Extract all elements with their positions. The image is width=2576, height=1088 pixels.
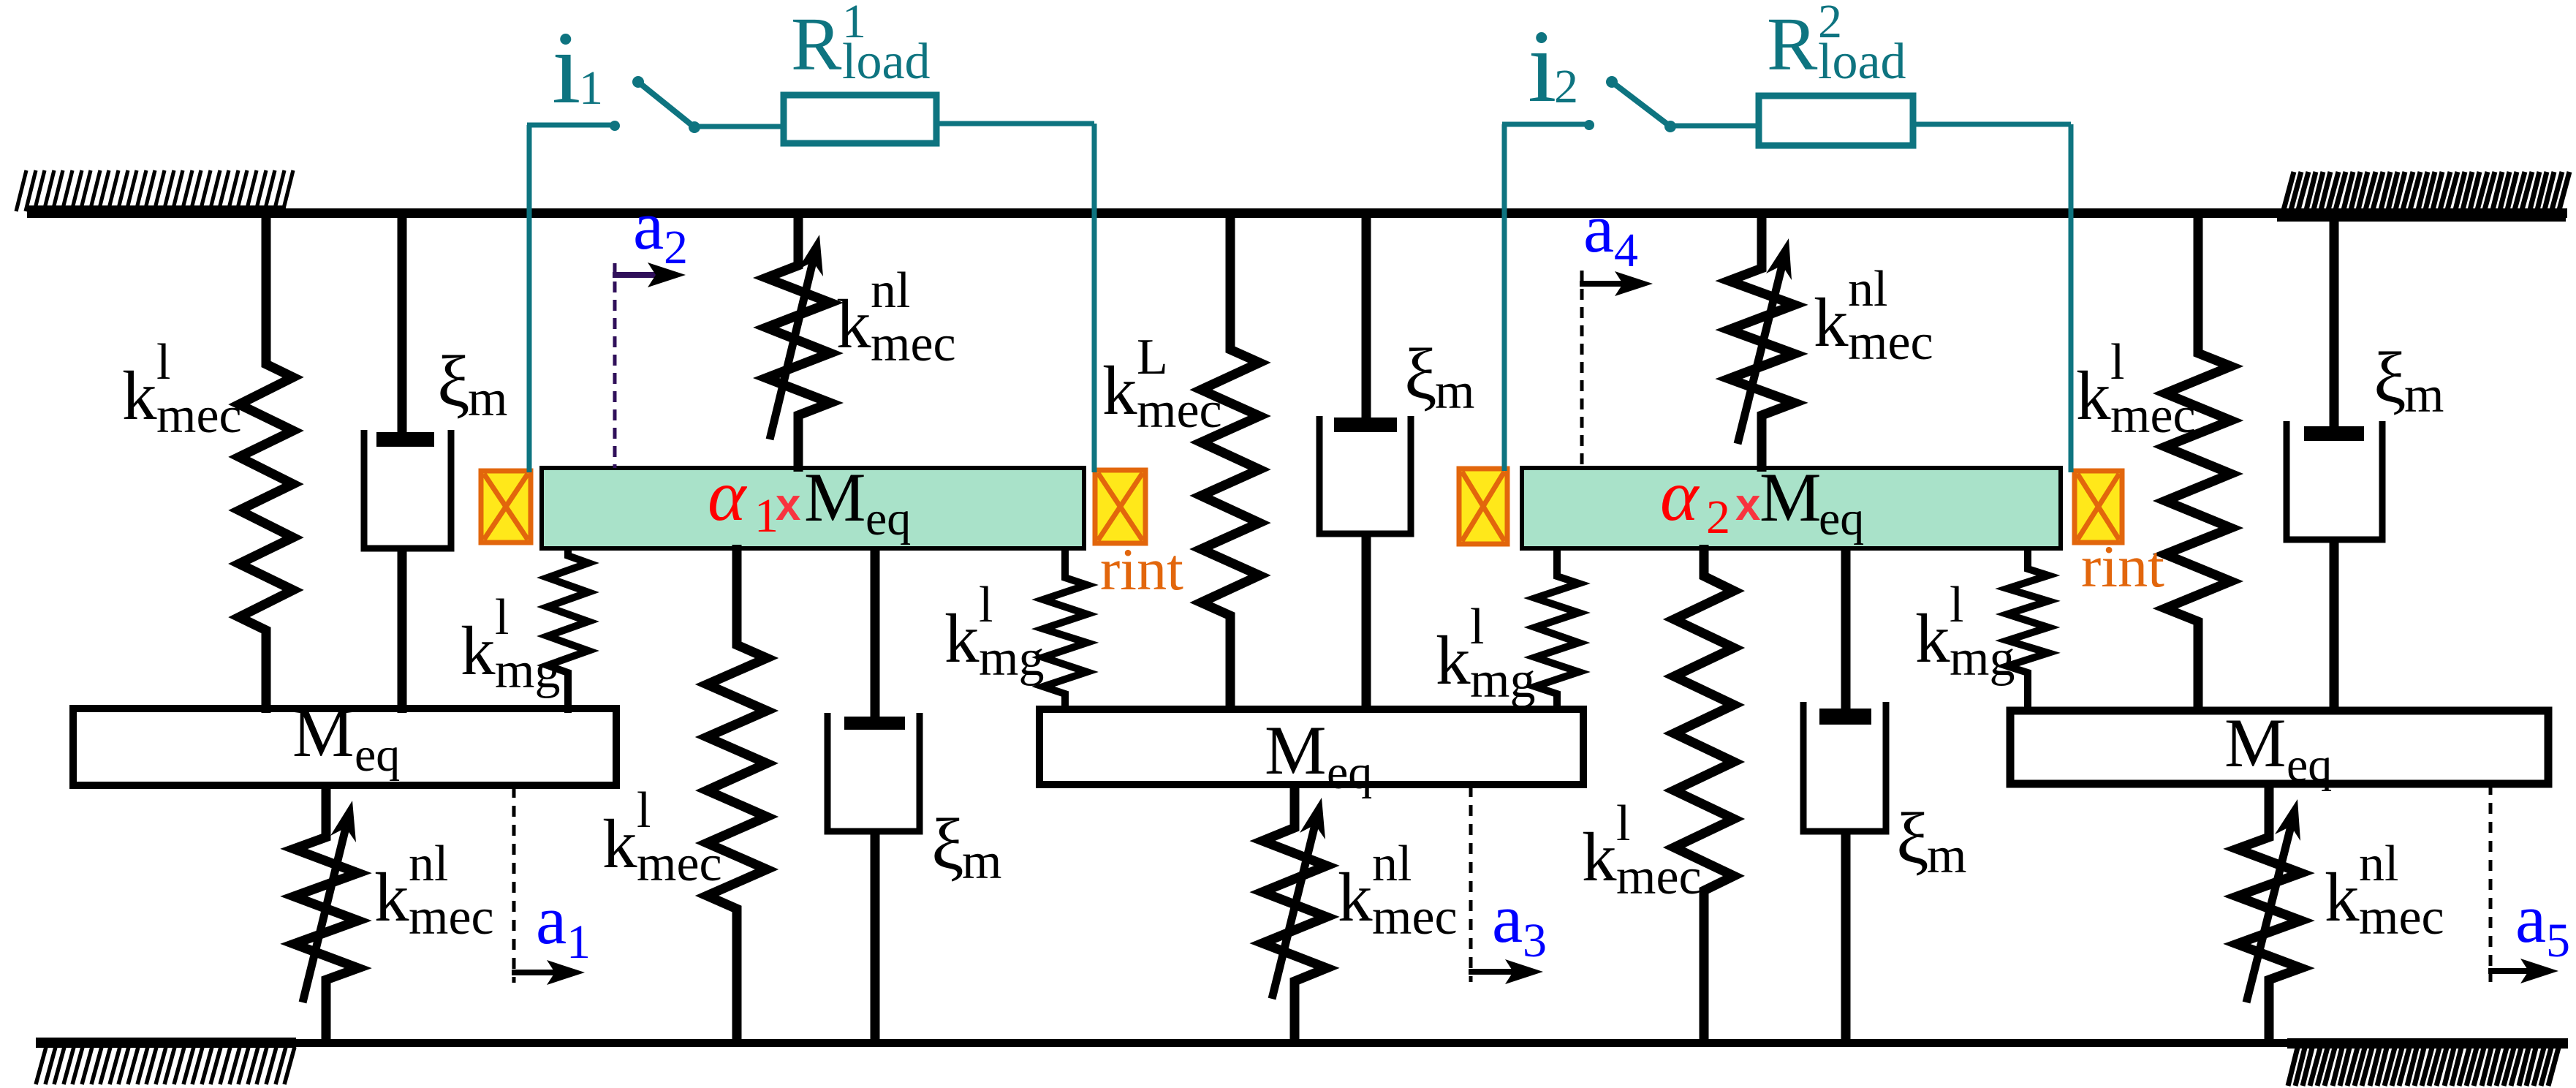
svg-text:M: M xyxy=(1265,711,1326,789)
svg-text:mec: mec xyxy=(637,836,722,892)
nonlinear spring k_mec^nl below left Meq xyxy=(294,782,358,1043)
svg-text:M: M xyxy=(2224,704,2286,782)
svg-text:rint: rint xyxy=(1100,536,1183,602)
nonlinear spring k_mec^nl below right Meq xyxy=(2237,782,2301,1043)
svg-text:2: 2 xyxy=(1554,60,1578,113)
svg-text:2: 2 xyxy=(664,221,688,274)
spring k_mec^l below green mass 1 xyxy=(707,545,767,1043)
svg-text:nl: nl xyxy=(1372,836,1412,892)
top-left wall fixed support hatching xyxy=(16,170,293,211)
svg-text:l: l xyxy=(2110,334,2124,390)
transducer coil right of green mass 2 (rint) xyxy=(2075,471,2122,543)
svg-text:R: R xyxy=(1767,2,1818,86)
switch 1 pivot dot xyxy=(689,121,700,133)
arrow of nonlinear spring above green mass 1 xyxy=(770,262,813,439)
damper xi_m 2 (wall to middle Meq) xyxy=(1362,214,1371,429)
svg-text:eq: eq xyxy=(1327,746,1372,799)
svg-text:l: l xyxy=(1616,796,1630,852)
svg-text:load: load xyxy=(842,34,931,90)
svg-text:1: 1 xyxy=(579,61,603,115)
svg-text:x: x xyxy=(1735,480,1761,530)
svg-text:mec: mec xyxy=(1848,314,1933,371)
svg-text:k: k xyxy=(2325,858,2360,936)
svg-text:α: α xyxy=(708,455,748,536)
arrow of nonlinear spring below right Meq xyxy=(2246,826,2291,1002)
wire to switch contact 1 xyxy=(527,123,615,128)
svg-text:eq: eq xyxy=(1819,492,1864,545)
svg-text:mg: mg xyxy=(1950,630,2015,687)
svg-text:load: load xyxy=(1818,34,1906,90)
svg-text:i: i xyxy=(552,10,580,125)
svg-text:a: a xyxy=(1492,880,1523,957)
svg-text:k: k xyxy=(374,858,409,936)
wire resistor 1 to corner xyxy=(936,121,1094,126)
svg-text:α: α xyxy=(1660,455,1700,536)
svg-text:L: L xyxy=(1137,329,1168,385)
svg-text:mec: mec xyxy=(409,889,494,945)
svg-text:mec: mec xyxy=(1372,889,1458,945)
svg-text:m: m xyxy=(1435,363,1474,420)
svg-text:5: 5 xyxy=(2546,914,2570,967)
spring k_mec^l far-left (wall to left Meq) xyxy=(239,214,293,713)
svg-text:k: k xyxy=(1582,818,1617,896)
svg-text:mec: mec xyxy=(2359,889,2444,945)
transducer coil left of green mass 1 xyxy=(481,471,531,543)
svg-text:mg: mg xyxy=(979,630,1044,687)
wire resistor 2 to corner xyxy=(1913,122,2071,127)
svg-text:l: l xyxy=(156,334,170,390)
svg-text:2: 2 xyxy=(1706,491,1730,544)
svg-text:a: a xyxy=(536,881,567,959)
switch 2 contact dot xyxy=(1584,120,1594,130)
mass M_eq box left xyxy=(73,709,616,785)
svg-text:ξ: ξ xyxy=(437,341,470,422)
svg-text:3: 3 xyxy=(1523,914,1547,967)
svg-text:eq: eq xyxy=(355,728,400,782)
wire down to coil 1R xyxy=(1092,124,1097,472)
dashed axis a1 xyxy=(512,787,516,983)
arrow a2 xyxy=(613,272,656,278)
transducer coil right of green mass 1 (rint) xyxy=(1095,470,1145,543)
svg-text:k: k xyxy=(461,612,496,690)
mass M_eq box right xyxy=(2010,711,2548,784)
svg-text:k: k xyxy=(1915,600,1950,677)
svg-text:nl: nl xyxy=(1848,261,1887,317)
svg-text:1: 1 xyxy=(567,915,591,969)
svg-text:l: l xyxy=(637,782,651,839)
svg-text:nl: nl xyxy=(871,262,910,319)
dashed axis a4 xyxy=(1580,271,1584,468)
svg-text:k: k xyxy=(1338,858,1373,936)
green proof mass alpha2*Meq xyxy=(1522,468,2061,548)
arrow of nonlinear spring below middle Meq xyxy=(1272,825,1315,999)
bottom-right wall fixed support hatching xyxy=(2288,1048,2558,1086)
dashed axis a3 xyxy=(1469,786,1473,982)
svg-text:mg: mg xyxy=(1470,652,1535,709)
arrow a3 xyxy=(1469,969,1513,975)
wire switch 2 to resistor xyxy=(1670,124,1759,129)
svg-text:mec: mec xyxy=(1137,382,1222,439)
switch 1 blade end dot xyxy=(632,76,644,88)
wire to switch contact 2 xyxy=(1502,122,1589,127)
wire switch 1 to resistor xyxy=(694,124,784,129)
svg-text:i: i xyxy=(1528,8,1556,124)
svg-text:l: l xyxy=(1470,599,1484,655)
svg-text:l: l xyxy=(979,577,993,633)
svg-text:m: m xyxy=(1927,828,1966,884)
svg-text:k: k xyxy=(1102,352,1137,429)
svg-text:ξ: ξ xyxy=(931,804,964,885)
svg-text:k: k xyxy=(1436,622,1471,699)
svg-text:k: k xyxy=(836,285,871,363)
switch 1 contact dot xyxy=(610,121,620,131)
svg-text:ξ: ξ xyxy=(2374,337,2406,418)
svg-text:mec: mec xyxy=(2110,388,2196,444)
arrow a4 xyxy=(1580,281,1623,287)
transducer coil left of green mass 2 xyxy=(1459,469,1507,544)
svg-text:rint: rint xyxy=(2081,533,2164,600)
svg-text:k: k xyxy=(122,357,157,434)
svg-text:M: M xyxy=(292,694,354,771)
damper xi_m 5 (wall to right Meq) xyxy=(2330,214,2339,438)
svg-text:nl: nl xyxy=(2359,836,2398,892)
switch 2 blade (open) xyxy=(1612,82,1670,126)
svg-text:k: k xyxy=(2076,357,2111,434)
green proof mass alpha1*Meq xyxy=(542,468,1084,548)
svg-text:mec: mec xyxy=(1616,849,1702,905)
damper xi_m 3 (below green mass 1) xyxy=(871,547,880,727)
svg-text:mec: mec xyxy=(156,388,242,444)
damper xi_m 1 (wall to left Meq) xyxy=(398,214,407,444)
spring k_mg^l 2 (green mass 1 to middle Meq) xyxy=(1043,547,1087,713)
top wall line xyxy=(27,208,2567,218)
svg-text:eq: eq xyxy=(865,492,911,545)
nonlinear spring k_mec^nl above green mass 2 xyxy=(1729,214,1795,472)
resistor R_load^1 xyxy=(784,95,936,143)
switch 2 pivot dot xyxy=(1664,121,1676,132)
arrow a5 xyxy=(2488,968,2528,974)
svg-text:k: k xyxy=(1814,284,1849,361)
svg-text:m: m xyxy=(962,834,1001,890)
svg-text:ξ: ξ xyxy=(1404,333,1437,415)
nonlinear spring k_mec^nl above green mass 1 xyxy=(766,214,830,472)
damper xi_m 4 (below green mass 2) xyxy=(1841,547,1851,722)
svg-text:m: m xyxy=(468,371,507,427)
svg-text:a: a xyxy=(633,186,664,264)
svg-text:ξ: ξ xyxy=(1896,798,1929,879)
resistor R_load^2 xyxy=(1759,96,1913,146)
dashed axis a2 xyxy=(613,263,617,468)
svg-text:nl: nl xyxy=(409,836,448,892)
svg-text:a: a xyxy=(2515,880,2546,957)
mass M_eq box middle xyxy=(1039,709,1583,785)
dashed axis a5 xyxy=(2489,784,2493,982)
svg-text:mg: mg xyxy=(495,643,560,699)
spring k_mg^l 1 (green mass 1 to left Meq) xyxy=(548,547,588,713)
spring k_mec^l below green mass 2 xyxy=(1674,545,1734,1043)
svg-text:k: k xyxy=(944,600,980,677)
arrow a1 xyxy=(512,970,555,975)
switch 2 blade end dot xyxy=(1606,76,1618,88)
nonlinear spring k_mec^nl below middle Meq xyxy=(1262,782,1327,1043)
arrow of nonlinear spring below left Meq xyxy=(303,828,346,1002)
arrow of nonlinear spring above green mass 2 xyxy=(1738,265,1782,444)
wire from coil 2L up xyxy=(1502,124,1507,471)
spring k_mec^L (wall to middle Meq) xyxy=(1201,214,1259,713)
switch 1 blade (open) xyxy=(638,82,694,127)
svg-text:M: M xyxy=(804,458,865,536)
svg-text:m: m xyxy=(2404,367,2444,423)
spring k_mec^l far-right (wall to right Meq) xyxy=(2165,214,2231,713)
svg-text:a: a xyxy=(1583,189,1614,267)
svg-text:mec: mec xyxy=(871,316,956,372)
svg-text:4: 4 xyxy=(1614,224,1638,277)
svg-text:eq: eq xyxy=(2287,738,2332,792)
bottom-left wall fixed support hatching xyxy=(36,1047,295,1084)
spring k_mg^l 3 (green mass 2 to middle Meq) xyxy=(1535,547,1579,713)
svg-text:R: R xyxy=(791,2,842,86)
wire down to coil 2R xyxy=(2069,124,2074,472)
svg-text:x: x xyxy=(776,480,801,530)
svg-text:l: l xyxy=(1950,577,1963,633)
svg-text:k: k xyxy=(602,805,637,883)
bottom wall line xyxy=(36,1039,2568,1047)
svg-text:M: M xyxy=(1759,458,1821,536)
top-right wall fixed support hatching xyxy=(2284,172,2569,210)
svg-text:l: l xyxy=(495,589,509,646)
wire from coil 1L up xyxy=(527,125,532,472)
spring k_mg^l 4 (green mass 2 to right Meq) xyxy=(2007,547,2048,713)
